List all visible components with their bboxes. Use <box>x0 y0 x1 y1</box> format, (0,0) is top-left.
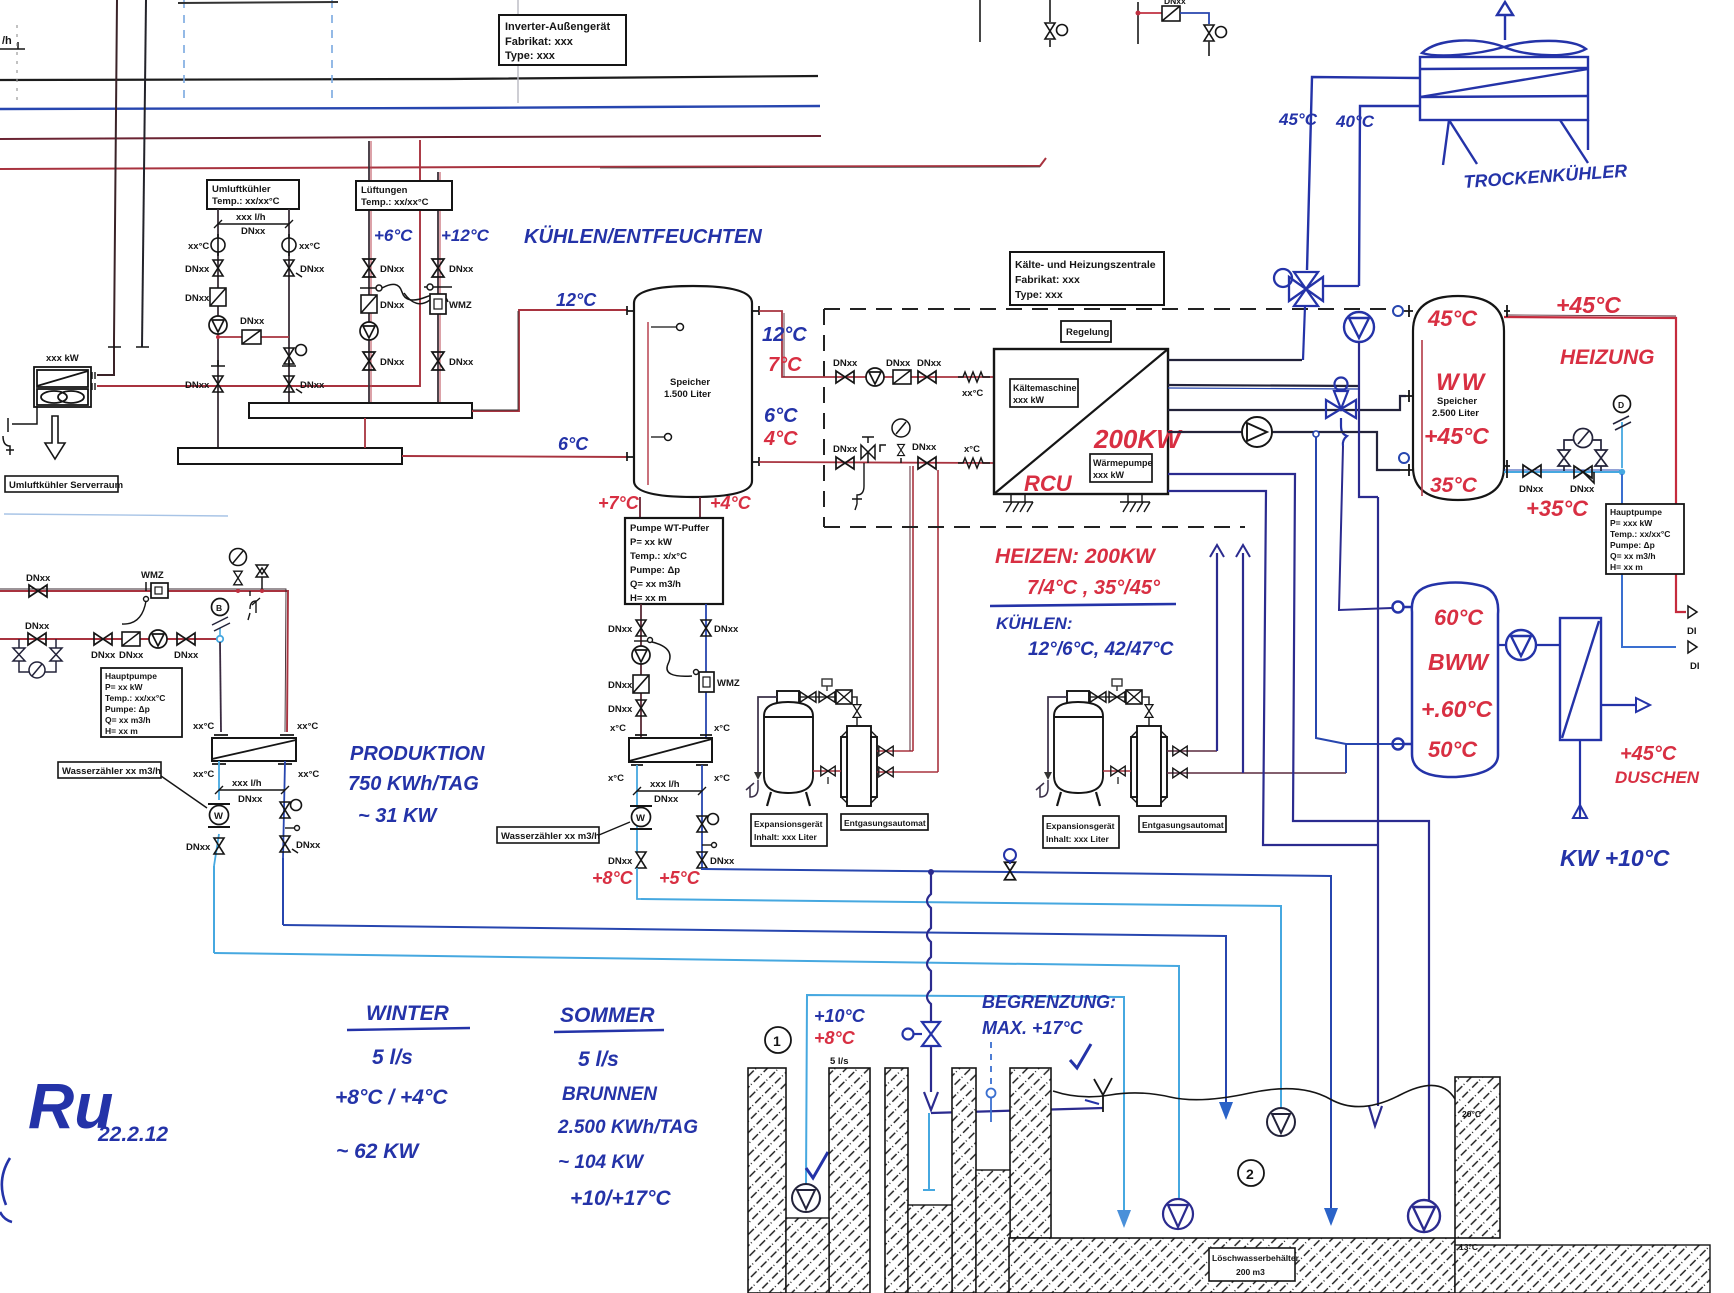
component: WMZ heat meter middle <box>694 670 740 693</box>
label: Wasserzähler xx m3/h box production <box>58 762 207 808</box>
svg-text:WINTER: WINTER <box>366 1002 450 1025</box>
label: Regelung box <box>1061 321 1111 342</box>
svg-text:+.60°C: +.60°C <box>1421 696 1493 722</box>
valve: DNxx Lüftungen bottom right <box>432 352 444 370</box>
svg-text:Temp.: xx/xx°C: Temp.: xx/xx°C <box>212 196 280 207</box>
svg-text:45°C: 45°C <box>1278 110 1318 129</box>
pump: line B circulation pump <box>149 630 167 648</box>
valve: DNxx row2 valve B <box>918 457 936 469</box>
wire: cold feed down from junction to DI stub (behind box) <box>1622 474 1676 647</box>
svg-text:2.500 KWh/TAG: 2.500 KWh/TAG <box>557 1117 698 1138</box>
wire: vertical riser x117 <box>97 0 117 375</box>
valve: DNxx line B third <box>177 633 195 645</box>
svg-text:22.2.12: 22.2.12 <box>97 1123 168 1146</box>
svg-text:Inhalt: xxx Liter: Inhalt: xxx Liter <box>1046 834 1110 844</box>
svg-text:750 KWh/TAG: 750 KWh/TAG <box>348 773 479 795</box>
svg-text:W: W <box>636 813 645 824</box>
svg-text:PRODUKTION: PRODUKTION <box>350 743 485 765</box>
svg-text:+8°C / +4°C: +8°C / +4°C <box>335 1086 448 1109</box>
svg-text:x°C: x°C <box>714 773 730 784</box>
node: flexible connector row2 <box>958 458 990 468</box>
valve: DNxx Lüftungen left <box>363 259 375 277</box>
component: Entgasungsautomat 1 <box>841 726 877 806</box>
wire: red/black pair line 3 <box>0 136 821 139</box>
component: bypass with gauge on 35°C line <box>1558 429 1607 472</box>
wire: Umluftkühler right branch <box>288 209 290 403</box>
wire: red drop from line3 to fan coil <box>97 140 420 386</box>
svg-text:W: W <box>214 811 223 822</box>
node: water level wavy line <box>1053 1085 1455 1106</box>
svg-text:Kälte- und Heizungszentrale: Kälte- und Heizungszentrale <box>1015 259 1156 271</box>
svg-text:~ 104 KW: ~ 104 KW <box>558 1152 645 1173</box>
svg-text:2.500 Liter: 2.500 Liter <box>1432 408 1479 419</box>
node: float symbol at basin inlet <box>1094 1078 1112 1112</box>
component: WMZ heat meter right <box>430 294 472 314</box>
valve: DNxx on line A <box>29 585 47 597</box>
svg-text:Wärmepumpe: Wärmepumpe <box>1093 458 1153 468</box>
svg-text:Temp.: xx/xx°C: Temp.: xx/xx°C <box>361 197 429 208</box>
pump: hand-drawn cooler circuit pump <box>1344 312 1374 342</box>
node: WW tank mid port <box>1406 390 1413 402</box>
component: Kältemaschine / Wärmepumpe main unit <box>994 349 1168 494</box>
svg-text:DNxx: DNxx <box>296 840 321 851</box>
svg-text:DNxx: DNxx <box>1570 484 1595 495</box>
svg-text:DNxx: DNxx <box>119 650 144 661</box>
svg-text:Fabrikat: xxx: Fabrikat: xxx <box>1015 274 1080 286</box>
svg-text:40°C: 40°C <box>1335 112 1375 131</box>
svg-text:Speicher: Speicher <box>1437 396 1477 407</box>
svg-text:+10/+17°C: +10/+17°C <box>570 1187 671 1210</box>
svg-text:Lüftungen: Lüftungen <box>361 185 408 196</box>
wire: right branch below WT-Puffer box <box>705 604 707 737</box>
node: stub with circle right branch <box>702 844 712 846</box>
wire: Lüftungen left riser <box>368 141 370 403</box>
svg-text:+5°C: +5°C <box>659 868 701 888</box>
label: circled 2 basin <box>1238 1160 1264 1186</box>
svg-text:+10°C: +10°C <box>814 1006 866 1026</box>
svg-text:DNxx: DNxx <box>241 226 266 237</box>
wire: tap down to BWW tank lower port <box>1316 437 1403 773</box>
label: Pumpe WT-Puffer data box <box>625 518 723 604</box>
component: well shaft bottoms <box>786 1170 1010 1293</box>
svg-text:xxx l/h: xxx l/h <box>650 779 680 790</box>
svg-text:Type: xxx: Type: xxx <box>1015 289 1063 301</box>
svg-text:DNxx: DNxx <box>608 680 633 691</box>
node: machine feet hatching left <box>1003 494 1033 512</box>
component: strainer left <box>210 288 226 306</box>
node: vent plus left / right <box>211 360 296 366</box>
wire: WW tank 35°C line to Hauptpumpe <box>1504 471 1620 473</box>
label: Inverter-Außengerät box <box>499 15 626 65</box>
wire: tank bottom to WT-Puffer box legs <box>640 497 700 518</box>
svg-text:DNxx: DNxx <box>380 264 405 275</box>
svg-text:1.500 Liter: 1.500 Liter <box>664 389 711 400</box>
label: Kälte- und Heizungszentrale box <box>1010 252 1164 305</box>
wire: KW cold water feed with arrow <box>1579 740 1581 818</box>
sensor: thermometer right xx°C <box>282 234 296 256</box>
component: WW Speicher 2.500 Liter tank <box>1413 296 1504 500</box>
svg-text:Pumpe: Δp: Pumpe: Δp <box>630 565 680 576</box>
wire: left branch below WT-Puffer box <box>640 604 642 737</box>
node: airflow arrow down from fan coil <box>45 416 65 459</box>
svg-text:Q= xx m3/h: Q= xx m3/h <box>105 715 151 725</box>
wire: 3-way valve drain down to BWW top port <box>1339 446 1392 610</box>
wire: red supply manifold1 to buffer tank 12°C <box>472 310 628 411</box>
component: BWW tank hand-drawn <box>1393 583 1499 778</box>
wire: main blue line top-left <box>0 106 820 109</box>
component: strainer line B <box>119 632 144 661</box>
component: Trockenkühler dry cooler hand-drawn <box>1420 2 1588 165</box>
wire: long red line 4 with end hook <box>0 158 1046 169</box>
node: vent plus marks <box>108 346 149 348</box>
sensor: temperature tap with capillary to WMZ <box>360 284 452 304</box>
svg-text:BRUNNEN: BRUNNEN <box>562 1084 658 1105</box>
svg-text:x°C: x°C <box>610 723 626 734</box>
pump: WT-Puffer pump with control cable <box>632 638 692 677</box>
svg-text:50°C: 50°C <box>1428 737 1478 762</box>
wire: tank top to chiller row 1 (12/7°C) <box>759 311 994 377</box>
svg-text:DNxx: DNxx <box>1519 484 1544 495</box>
sensor: thermometer left xx°C <box>211 234 225 256</box>
node: check mark begrenzung <box>1070 1044 1091 1068</box>
svg-text:Entgasungsautomat: Entgasungsautomat <box>844 818 926 828</box>
node: stub circle production right <box>285 827 295 829</box>
svg-text:DNxx: DNxx <box>608 624 633 635</box>
wire: chiller output line a to mixing valve riser <box>1168 359 1302 361</box>
svg-text:MAX. +17°C: MAX. +17°C <box>982 1018 1084 1038</box>
wire: throttled drain line with crossing hops <box>927 872 931 1022</box>
valve: DNxx Lüftungen bottom left <box>363 352 375 370</box>
node: machine feet hatching right <box>1120 494 1150 512</box>
wire: expansion vessel 1 left pipe with drain <box>758 697 777 772</box>
svg-text:BWW: BWW <box>1428 649 1490 675</box>
svg-text:DNxx: DNxx <box>185 293 210 304</box>
component: strainer Lüftungen left <box>361 295 377 313</box>
label: Expansionsgerät 1 box <box>751 814 827 846</box>
wire: faint blue horizontal mid-left <box>4 514 228 516</box>
svg-text:D: D <box>1618 400 1624 410</box>
component: gauge with valve on line A <box>230 549 247 594</box>
svg-text:DNxx: DNxx <box>608 856 633 867</box>
wire: top middle stub 1 <box>979 0 981 42</box>
svg-text:DNxx: DNxx <box>833 358 858 369</box>
pump: basin pump 4 <box>1408 1200 1440 1232</box>
valve: DNxx bottom left <box>213 376 223 392</box>
svg-text:Umluftkühler: Umluftkühler <box>212 184 271 195</box>
svg-text:+45°C: +45°C <box>1556 292 1621 318</box>
svg-text:DNxx: DNxx <box>380 357 405 368</box>
svg-text:x°C: x°C <box>608 773 624 784</box>
label: Entgasungsautomat 1 box <box>841 814 928 830</box>
valve: DNxx row1 valve B <box>918 371 936 383</box>
svg-text:KÜHLEN/ENTFEUCHTEN: KÜHLEN/ENTFEUCHTEN <box>524 225 762 248</box>
component: right ground slab <box>1455 1245 1710 1293</box>
svg-text:Pumpe: Δp: Pumpe: Δp <box>1610 540 1655 550</box>
svg-text:Q= xx m3/h: Q= xx m3/h <box>1610 551 1656 561</box>
svg-text:DNxx: DNxx <box>300 264 325 275</box>
component: expansion vessel 2 <box>1054 691 1103 806</box>
label: Wasserzähler xx m3/h box middle <box>497 822 630 843</box>
wire: drain open arrow and elbow into basin <box>930 1046 932 1092</box>
svg-text:DI: DI <box>1687 626 1697 637</box>
component: heat exchanger WT production <box>629 738 712 762</box>
node: measuring stub /h top-left <box>0 35 25 49</box>
valve: DNxx bottom right <box>284 376 294 392</box>
wire: +45°C HEIZUNG red line <box>1504 317 1686 612</box>
label: Löschwasserbehälter box <box>1209 1248 1300 1281</box>
svg-text:200KW: 200KW <box>1093 424 1183 454</box>
svg-text:DNxx: DNxx <box>449 264 474 275</box>
node: drain hook on line A <box>248 591 260 620</box>
svg-text:+6°C: +6°C <box>374 226 413 245</box>
label: Umluftkühler group box <box>207 180 299 209</box>
label: Expansionsgerät 2 box <box>1043 816 1119 848</box>
label: x°C ticks below HX2 <box>631 764 708 766</box>
wire: dark scan line at top edge <box>178 2 338 3</box>
wire: production left branch vertical <box>213 866 215 953</box>
label: xx°C below HX1 ports <box>212 763 292 765</box>
svg-text:xx°C: xx°C <box>188 241 209 252</box>
svg-text:Fabrikat: xxx: Fabrikat: xxx <box>505 36 574 48</box>
svg-text:HEIZEN: 200KW: HEIZEN: 200KW <box>995 545 1157 568</box>
svg-text:45°C: 45°C <box>1427 306 1478 331</box>
valve: hand-drawn 3-way valve on line c <box>1326 378 1356 447</box>
component: safety group with gauge row2 <box>861 419 910 463</box>
wire: red riser from Entgas1 to chiller row 1 <box>912 466 914 751</box>
svg-text:Temp.: x/x°C: Temp.: x/x°C <box>630 551 687 562</box>
component: water meter W middle <box>630 806 652 829</box>
wire: +8°C line down and right <box>637 868 641 899</box>
svg-text:/h: /h <box>2 35 12 47</box>
svg-text:Type: xxx: Type: xxx <box>505 50 556 62</box>
svg-text:Regelung: Regelung <box>1066 327 1109 338</box>
node: DI stub arrow lower <box>1688 641 1697 653</box>
svg-text:x°C: x°C <box>964 444 980 455</box>
valve: Entgasungsautomat2 right bottom valve <box>1167 772 1346 774</box>
valve: DNxx row1 valve A <box>836 371 854 383</box>
svg-text:6°C: 6°C <box>764 405 798 427</box>
svg-text:xx°C: xx°C <box>193 721 214 732</box>
svg-text:Wasserzähler xx m3/h: Wasserzähler xx m3/h <box>501 831 600 842</box>
valve: motorised valve production right <box>280 800 302 819</box>
svg-text:DNxx: DNxx <box>833 444 858 455</box>
wire: chiller line f down corner path to open arrow <box>1168 491 1378 845</box>
component: distribution manifold bar 1 <box>249 403 472 418</box>
svg-text:DNxx: DNxx <box>886 358 911 369</box>
svg-text:DNxx: DNxx <box>1164 0 1186 6</box>
svg-text:RCU: RCU <box>1024 471 1073 496</box>
svg-text:+45°C: +45°C <box>1620 743 1677 765</box>
svg-text:DNxx: DNxx <box>714 624 739 635</box>
node: WW tank right lower port tick <box>1504 460 1510 478</box>
wire: light blue well2 down pipe <box>923 1113 935 1190</box>
svg-text:DNxx: DNxx <box>238 794 263 805</box>
svg-text:7°C: 7°C <box>768 354 802 376</box>
node: dashed boundary Kältezentrale <box>824 309 1395 527</box>
svg-text:B: B <box>216 603 222 613</box>
svg-text:6°C: 6°C <box>558 434 589 454</box>
node: check mark well1 <box>806 1152 828 1178</box>
wire: main black supply line top-left <box>0 76 818 80</box>
wire: left main red line B <box>0 638 218 640</box>
svg-text:xxx kW: xxx kW <box>1093 470 1125 480</box>
component: shower heat exchanger hand-drawn <box>1560 618 1601 740</box>
node: drain hook below row2 <box>852 463 864 510</box>
node: tap circle on line d <box>1313 431 1319 437</box>
svg-text:DNxx: DNxx <box>186 842 211 853</box>
svg-text:Temp.: xx/xx°C: Temp.: xx/xx°C <box>105 693 165 703</box>
svg-text:xx°C: xx°C <box>962 388 983 399</box>
svg-text:DNxx: DNxx <box>185 264 210 275</box>
svg-text:7/4°C , 35°/45°: 7/4°C , 35°/45° <box>1027 577 1161 599</box>
svg-text:DNxx: DNxx <box>25 621 50 632</box>
svg-text:1: 1 <box>773 1033 781 1049</box>
svg-text:DI: DI <box>1690 661 1700 672</box>
wire: mixing valve bottom to line a <box>1303 306 1305 360</box>
valve: DNxx right shutoff <box>284 260 294 276</box>
svg-text:DNxx: DNxx <box>26 573 51 584</box>
component: Entgasungsautomat 2 <box>1131 726 1167 806</box>
wire: heat pump line c to WW tank mid port <box>1168 396 1406 410</box>
svg-text:H= xx m: H= xx m <box>630 593 667 604</box>
svg-text:WMZ: WMZ <box>717 678 740 689</box>
valve: motorised valve above +5°C <box>697 814 719 833</box>
wire: vertical riser x146 <box>142 0 146 347</box>
valve: hand throttle valve on drain <box>903 1022 941 1046</box>
svg-text:SOMMER: SOMMER <box>560 1004 655 1027</box>
svg-text:DNxx: DNxx <box>240 316 265 327</box>
valve: DNxx production right bottom <box>280 836 290 852</box>
node: flow span below HX1 <box>215 786 289 794</box>
label: Entgasungsautomat 2 box <box>1139 816 1226 832</box>
svg-text:DNxx: DNxx <box>608 704 633 715</box>
component: buffer tank Speicher 1.500 Liter <box>627 286 759 497</box>
component: well field ground hatching columns <box>748 1068 1051 1293</box>
component: safety relief valve on line A <box>256 565 268 593</box>
svg-text:DNxx: DNxx <box>654 794 679 805</box>
svg-text:xx°C: xx°C <box>297 721 318 732</box>
svg-text:DNxx: DNxx <box>380 300 405 311</box>
valve: Entgasungsautomat2 right top valve to riser <box>1167 750 1217 752</box>
component: WMZ heat meter line A <box>122 570 168 624</box>
svg-text:Hauptpumpe: Hauptpumpe <box>105 671 157 681</box>
wire: chiller output line b to cooler pump riser <box>1168 385 1359 386</box>
svg-text:200 m3: 200 m3 <box>1236 1267 1265 1277</box>
wire: heat pump line d with pump to WW tank lower port <box>1168 432 1400 470</box>
node: WW tank port 45°C with sensor circle <box>1398 305 1413 317</box>
svg-text:xx°C: xx°C <box>298 769 319 780</box>
wire: mixing valve link to pump riser <box>1322 285 1359 287</box>
svg-text:P= xxx kW: P= xxx kW <box>1610 518 1653 528</box>
svg-text:xx°C: xx°C <box>193 769 214 780</box>
component: fan coil unit xxx kW (Umluftkühler Serverraum) <box>34 367 95 407</box>
wire: bundle line 1 (+5°C) to deep basin arrow <box>702 869 1331 1208</box>
wire: chiller line e down to basin pump 4 <box>1168 474 1429 1201</box>
svg-text:Hauptpumpe: Hauptpumpe <box>1610 507 1662 517</box>
svg-text:5 l/s: 5 l/s <box>830 1056 849 1067</box>
label: circled 1 well <box>765 1027 791 1053</box>
valve: DNxx middle left lower <box>636 700 646 716</box>
svg-text:13°C: 13°C <box>1459 1242 1478 1252</box>
wire: faint gray vertical at x518 <box>517 0 519 103</box>
wire: Umluftkühler left branch <box>217 209 219 448</box>
pump: BWW loading pump hand-drawn <box>1498 644 1506 646</box>
svg-text:+4°C: +4°C <box>710 493 752 513</box>
node: blue underline <box>990 604 1176 606</box>
valve: DNxx Lüftungen right <box>432 259 444 277</box>
svg-text:KÜHLEN:: KÜHLEN: <box>996 614 1073 633</box>
valve: expansion group1 cap valve chain <box>799 679 861 726</box>
svg-text:60°C: 60°C <box>1434 605 1484 630</box>
valve: expansion vessel2 bottom connection valve <box>1103 770 1131 772</box>
wire: well riser 1 with up arrow to Entgas2 line <box>1216 553 1218 751</box>
svg-text:+45°C: +45°C <box>1424 423 1489 449</box>
svg-text:Pumpe: Δp: Pumpe: Δp <box>105 704 150 714</box>
valve: expansion vessel1 bottom connection valve <box>813 770 841 772</box>
valve: DNxx angle valve on 35°C line <box>1570 466 1595 495</box>
node: flow span xxx l/h DNxx middle <box>633 787 706 795</box>
wire: red return manifold2 to buffer tank 6°C <box>402 456 628 457</box>
svg-text:x°C: x°C <box>714 723 730 734</box>
wire: HX1 bottom branches <box>214 761 219 866</box>
sensor: B sensor with junction <box>212 599 231 643</box>
component: distribution manifold bar 2 <box>178 448 402 464</box>
wire: tank bottom to heat pump row 2 (6/4°C) <box>759 462 994 463</box>
svg-text:+8°C: +8°C <box>592 868 634 888</box>
svg-text:KW +10°C: KW +10°C <box>1560 845 1670 871</box>
svg-text:xxx kW: xxx kW <box>1013 395 1045 405</box>
wire: 40°C pipe cooler to pump riser <box>1359 106 1420 286</box>
component: expansion vessel 1 <box>764 691 813 806</box>
valve: DNxx above +8°C <box>636 852 646 868</box>
label: Umluftkühler Serverraum <box>5 476 123 492</box>
svg-text:BEGRENZUNG:: BEGRENZUNG: <box>982 992 1116 1012</box>
pump: Lüftungen pump <box>360 322 378 340</box>
valve: Entgasungsautomat1 right bottom valve <box>877 771 938 773</box>
valve: DNxx line B second <box>94 633 112 645</box>
svg-text:H= xx m: H= xx m <box>1610 562 1643 572</box>
svg-text:2: 2 <box>1246 1166 1254 1182</box>
svg-text:Q= xx m3/h: Q= xx m3/h <box>630 579 681 590</box>
node: junction dot with D sensor <box>1619 469 1625 475</box>
svg-text:Umluftkühler Serverraum: Umluftkühler Serverraum <box>9 480 123 491</box>
valve: motorised valve top stub 3 <box>1204 25 1227 56</box>
wire: shared drop to open arrow into basin <box>1377 497 1379 1106</box>
wire: HX outlet +45°C DUSCHEN with arrow <box>1601 704 1636 706</box>
svg-text:Inhalt: xxx Liter: Inhalt: xxx Liter <box>754 832 818 842</box>
svg-text:Expansionsgerät: Expansionsgerät <box>754 819 823 829</box>
wire: bundle line 3 to basin surface arrow <box>283 925 1226 1102</box>
svg-text:~ 31 KW: ~ 31 KW <box>358 805 438 827</box>
svg-text:Expansionsgerät: Expansionsgerät <box>1046 821 1115 831</box>
valve: Entgasungsautomat1 right top valve <box>877 750 913 752</box>
label: Hauptpumpe left data box <box>101 668 182 737</box>
node: DI stub arrow upper <box>1688 606 1697 618</box>
component: basin right wall <box>1455 1077 1500 1238</box>
svg-text:+12°C: +12°C <box>441 226 490 245</box>
svg-text:20°C: 20°C <box>1462 1109 1481 1119</box>
svg-text:DNxx: DNxx <box>91 650 116 661</box>
svg-text:4°C: 4°C <box>763 428 798 450</box>
svg-text:P= xx kW: P= xx kW <box>630 537 672 548</box>
pump: basin pump 2 <box>1163 1199 1193 1229</box>
wire: connector between manifolds <box>364 418 366 448</box>
wire: Lüftungen right riser <box>437 172 439 403</box>
svg-text:Inverter-Außengerät: Inverter-Außengerät <box>505 21 610 33</box>
pump: CAD pump on line d <box>1242 417 1272 447</box>
svg-text:DNxx: DNxx <box>185 380 210 391</box>
svg-text:Löschwasserbehälter: Löschwasserbehälter <box>1212 1253 1300 1263</box>
